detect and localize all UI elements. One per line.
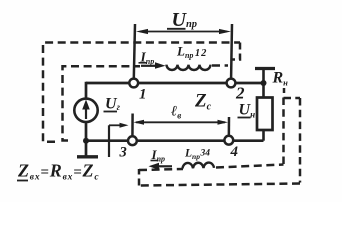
current arrow I_pr bottom (points left): [149, 163, 173, 170]
wire left vertical through source: [85, 82, 88, 156]
inductor coil L_pr34 (bottom, bumps above): [183, 163, 215, 169]
lead-in tick and arrow at source tap: [109, 123, 129, 157]
svg-text:2: 2: [235, 84, 245, 103]
node 1: [129, 79, 138, 88]
wire top conductor: [86, 82, 264, 85]
outer dashed loop right hook: [232, 43, 241, 60]
svg-text:4: 4: [230, 144, 239, 160]
voltage source circle U_g: [74, 99, 97, 122]
node tick 3 (vertical above node 3): [131, 114, 134, 141]
bottom hairpin dashed loop: [139, 169, 183, 170]
bottom loop left edge: [138, 169, 141, 186]
junction dot at source bottom: [83, 138, 89, 144]
load: T-bar terminal: [255, 67, 275, 70]
inner dashed segment right of coil: [212, 64, 228, 67]
load: vertical lead lower: [262, 130, 265, 141]
svg-text:Rн: Rн: [272, 70, 289, 88]
dimension arrow U_pr: [136, 29, 231, 34]
hairpin inner vertical: [282, 98, 285, 165]
label U_n: [238, 102, 256, 120]
node tick 1 (vertical above node 1): [134, 24, 135, 83]
svg-text:Zс: Zс: [194, 91, 212, 113]
node tick 4 (vertical above node 4): [228, 117, 231, 140]
node 4: [224, 136, 233, 145]
svg-text:3: 3: [119, 145, 127, 161]
label I_pr top: [139, 50, 155, 66]
label U_g: [104, 96, 121, 113]
bottom loop bottom edge: [139, 184, 300, 186]
dimension arrow l_v: [133, 120, 228, 125]
source arrow (up): [85, 108, 87, 119]
junction dot at load top: [261, 80, 267, 86]
svg-text:1: 1: [139, 87, 147, 103]
svg-text:Uг: Uг: [105, 96, 121, 113]
wire bottom conductor: [86, 139, 264, 142]
outer dashed loop left/top: [43, 43, 240, 142]
label I_pr bottom: [151, 147, 166, 163]
current arrow I_pr top (points right): [141, 62, 166, 69]
svg-text:ℓв: ℓв: [171, 104, 181, 121]
node 2: [227, 79, 236, 88]
hairpin outer vertical: [299, 98, 302, 183]
inner dashed loop left edge: [63, 66, 141, 140]
svg-text:Zвх=Rвх=Zс: Zвх=Rвх=Zс: [17, 161, 99, 183]
svg-text:Uпр: Uпр: [172, 9, 198, 31]
bottom loop dashed right of coil: [216, 165, 284, 168]
load: vertical lead upper: [262, 69, 265, 99]
ground bar: [77, 155, 98, 158]
label U_pr: [167, 9, 197, 31]
node 3: [128, 136, 137, 145]
svg-text:Lпр34: Lпр34: [184, 148, 210, 161]
node tick 2 (vertical above node 2): [231, 24, 232, 83]
small dash above hairpin: [283, 88, 286, 93]
resistor R_n body: [257, 98, 273, 131]
formula Z_vx = R_vx = Z_c: [17, 161, 99, 183]
inductor coil L_pr12 (top, bumps below): [167, 65, 211, 70]
hairpin top: [284, 97, 301, 100]
svg-text:Lпр12: Lпр12: [176, 44, 207, 61]
